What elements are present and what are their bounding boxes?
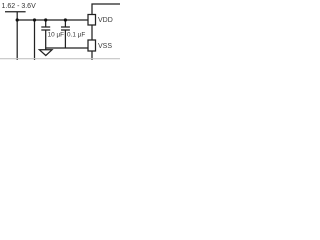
capacitor C1 plates	[41, 26, 50, 28]
node junction dot B	[33, 18, 36, 21]
faint page rule at bottom	[0, 58, 120, 60]
wire branch down (cropped)	[34, 20, 36, 60]
svg-text:10 µF: 10 µF	[48, 31, 65, 38]
supply node bar	[5, 11, 26, 13]
node junction dot C	[44, 18, 47, 21]
wire C1 bottom lead	[45, 30, 47, 50]
ground symbol	[39, 50, 52, 56]
svg-text:VSS: VSS	[98, 43, 112, 50]
capacitor C2 plates	[61, 26, 70, 28]
node junction dot D	[64, 18, 67, 21]
wire ground rail	[46, 47, 88, 49]
svg-text:0.1 µF: 0.1 µF	[67, 31, 85, 38]
svg-text:1.62 - 3.6V: 1.62 - 3.6V	[2, 3, 37, 10]
IC body outline (cropped at right)	[92, 4, 120, 15]
svg-text:VDD: VDD	[98, 17, 113, 24]
wire C2 bottom lead	[64, 30, 66, 48]
node junction dot A	[16, 18, 19, 21]
wire C1 top lead	[45, 20, 47, 27]
pin box VDD	[88, 15, 96, 26]
wire C2 top lead	[64, 20, 66, 27]
wire VDD bus	[17, 19, 88, 21]
pin box VSS	[88, 40, 96, 51]
wire from supply bar down	[16, 12, 18, 60]
